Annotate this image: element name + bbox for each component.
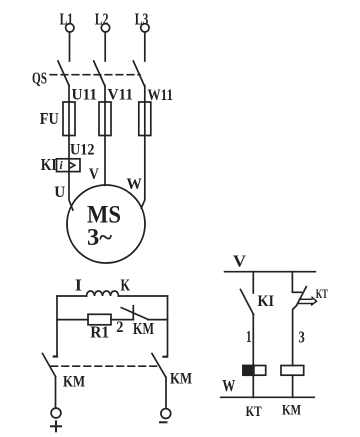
svg-text:3: 3 [299, 328, 305, 347]
terminal - circle [161, 409, 171, 419]
svg-text:V11: V11 [108, 86, 134, 103]
contact KM left: blade [43, 354, 56, 377]
relay KI current element (i>) [57, 159, 81, 172]
terminal + circle [51, 408, 61, 418]
wire L1 to QS [69, 32, 71, 61]
svg-text:KT: KT [316, 286, 328, 301]
contactor coil KM [281, 366, 304, 376]
svg-text:KM: KM [133, 319, 154, 338]
wire FU2 to motor terminal V [104, 136, 106, 186]
node L2 terminal [95, 10, 110, 32]
svg-text:V: V [233, 252, 247, 271]
wire FU1 to KI [68, 136, 70, 172]
fuse FU1 [63, 102, 75, 136]
wire top branch left segment [57, 295, 87, 297]
resistor R1 [88, 314, 111, 325]
wire KT coil to W bus [252, 375, 254, 397]
fuse FU2 [99, 102, 111, 136]
contact KM (NC in R1 branch): fixed tick [132, 306, 134, 320]
wire contact to right vertical [148, 319, 168, 321]
relay coil KT (half filled) [243, 366, 266, 376]
wire KT contact to KM coil / node 3 [293, 305, 297, 365]
switch QS pole 2 blade [94, 61, 105, 86]
contact KT delay symbol [298, 297, 317, 305]
svg-text:KT: KT [246, 404, 262, 420]
contact KI (NO): blade [241, 290, 254, 315]
wire V bus to KI contact [252, 272, 254, 293]
svg-text:R1: R1 [90, 323, 109, 342]
linkage dashed line between KM contacts [51, 365, 158, 367]
wire QS to FU2 / node V11 [104, 86, 106, 103]
svg-text:FU: FU [40, 109, 59, 128]
svg-text:W: W [222, 376, 235, 395]
wire KI to motor terminal U [69, 172, 73, 211]
contact KM left (NO): terminal tick [54, 355, 57, 357]
svg-text:KI: KI [258, 293, 275, 310]
wire R1 to node 2 [111, 319, 133, 321]
terminal + label [51, 421, 61, 431]
wire KM right to - terminal [165, 378, 167, 409]
contact KM right: blade [152, 354, 166, 378]
svg-text:K: K [121, 276, 131, 295]
wire top bus V [225, 271, 316, 273]
contact KT (delayed NC): blade [297, 287, 307, 306]
svg-text:KI: KI [41, 155, 57, 174]
svg-text:KM: KM [282, 402, 301, 418]
svg-text:KM: KM [63, 374, 85, 391]
svg-text:W: W [126, 176, 141, 193]
svg-text:KM: KM [170, 371, 192, 388]
svg-text:i: i [60, 160, 64, 172]
wire L3 to QS [144, 32, 146, 61]
svg-text:QS: QS [32, 69, 47, 88]
switch QS pole 3 blade [133, 61, 144, 86]
wire V bus to KT contact [292, 272, 301, 293]
svg-text:3~: 3~ [87, 225, 113, 251]
wire KM coil to W bus [292, 375, 294, 397]
node L1 terminal [60, 10, 74, 32]
svg-text:U: U [54, 184, 65, 201]
wire FU3 to motor terminal W [141, 136, 145, 209]
svg-text:V: V [89, 166, 99, 183]
motor MS 3~ [67, 185, 145, 263]
switch QS pole 1 blade [58, 61, 69, 86]
fuse FU3 [139, 102, 151, 136]
contact KM (NC in R1 branch): blade [121, 308, 148, 320]
wire second branch left segment [57, 319, 88, 321]
wire KM left to + terminal [55, 377, 57, 409]
svg-text:U11: U11 [72, 86, 98, 103]
node L3 terminal [135, 10, 149, 32]
wire right vertical of bridge [167, 296, 169, 357]
wire L2 to QS [104, 32, 106, 61]
svg-text:2: 2 [116, 319, 123, 336]
inductor K coil [87, 291, 119, 296]
svg-text:I: I [75, 276, 82, 295]
wire bottom bus W [221, 396, 314, 398]
terminal - label [160, 421, 167, 423]
contact KM right (NO): terminal tick [164, 356, 167, 358]
wire left vertical of bridge [56, 296, 58, 357]
svg-text:1: 1 [246, 327, 252, 346]
svg-text:U12: U12 [70, 142, 95, 159]
wire top branch right segment [119, 295, 168, 297]
wire KI contact to KT coil / node 1 [252, 315, 254, 366]
wire QS to FU3 / node W11 [144, 86, 146, 103]
wire QS to FU1 / node U11 [68, 86, 70, 103]
switch QS linkage dashed line [50, 74, 140, 76]
